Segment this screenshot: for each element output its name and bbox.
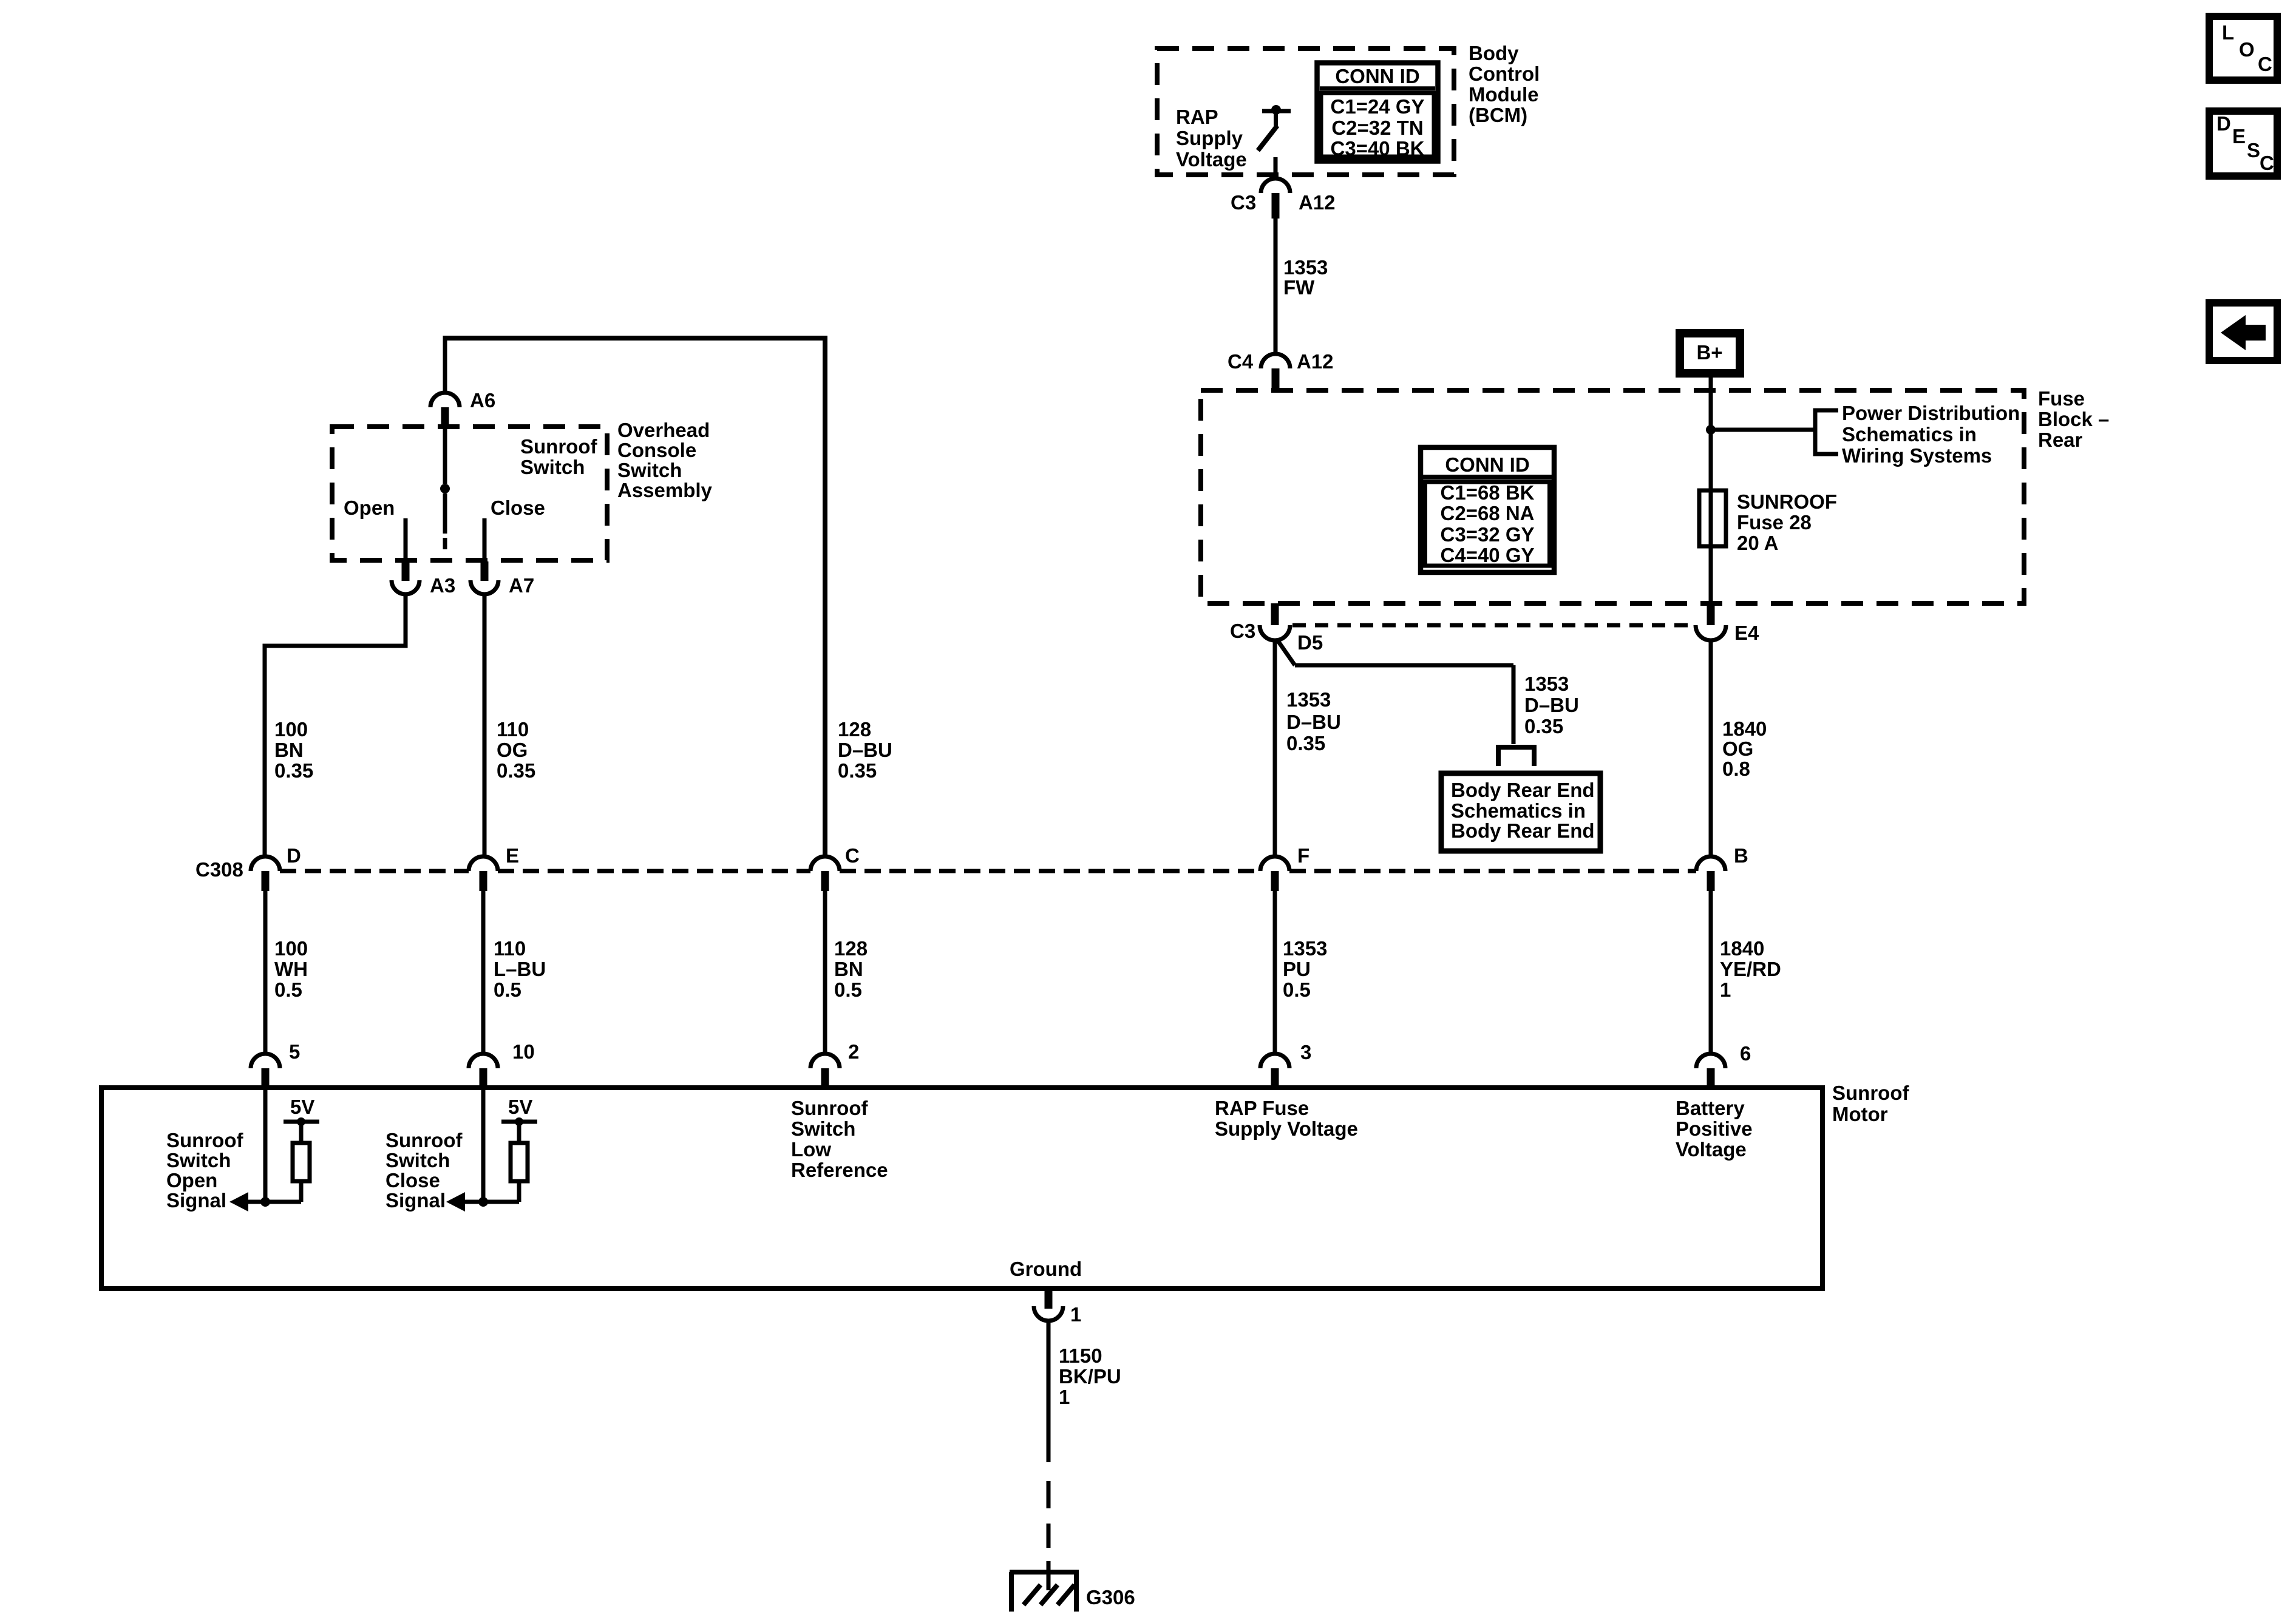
svg-text:Power Distribution: Power Distribution <box>1842 402 2020 424</box>
svg-text:C4=40 GY: C4=40 GY <box>1440 544 1534 566</box>
svg-text:D–BU: D–BU <box>1524 694 1579 716</box>
svg-text:Schematics in: Schematics in <box>1842 423 1977 446</box>
svg-text:G306: G306 <box>1086 1586 1135 1609</box>
svg-text:Supply Voltage: Supply Voltage <box>1215 1117 1358 1140</box>
svg-text:A7: A7 <box>509 574 534 597</box>
svg-text:A6: A6 <box>470 389 495 412</box>
svg-text:0.8: 0.8 <box>1722 758 1750 780</box>
svg-text:D: D <box>2216 112 2231 135</box>
svg-text:5V: 5V <box>508 1096 532 1118</box>
svg-text:1: 1 <box>1059 1386 1070 1408</box>
svg-text:Low: Low <box>791 1138 831 1161</box>
svg-text:0.5: 0.5 <box>1283 978 1311 1001</box>
svg-text:0.5: 0.5 <box>834 978 862 1001</box>
svg-text:5V: 5V <box>290 1096 314 1118</box>
svg-text:D–BU: D–BU <box>838 739 892 761</box>
svg-text:BN: BN <box>274 739 304 761</box>
svg-text:C3=32 GY: C3=32 GY <box>1440 523 1534 546</box>
svg-text:0.35: 0.35 <box>497 759 535 782</box>
svg-text:Positive: Positive <box>1676 1117 1753 1140</box>
svg-text:Sunroof: Sunroof <box>791 1097 868 1119</box>
svg-text:C: C <box>2258 53 2272 75</box>
svg-text:C4: C4 <box>1228 350 1254 373</box>
svg-text:A12: A12 <box>1299 191 1336 214</box>
svg-text:0.35: 0.35 <box>838 759 877 782</box>
svg-text:Switch: Switch <box>166 1149 231 1171</box>
svg-text:Close: Close <box>491 497 545 519</box>
svg-text:Console: Console <box>617 439 696 461</box>
svg-text:Rear: Rear <box>2038 429 2083 451</box>
svg-text:Block –: Block – <box>2038 408 2109 430</box>
svg-text:2: 2 <box>848 1040 859 1063</box>
svg-text:100: 100 <box>274 718 308 741</box>
svg-text:1353: 1353 <box>1283 937 1327 960</box>
svg-text:Signal: Signal <box>385 1189 446 1212</box>
svg-text:Overhead: Overhead <box>617 419 710 441</box>
svg-text:D5: D5 <box>1297 631 1323 654</box>
svg-text:5: 5 <box>289 1040 300 1063</box>
svg-text:PU: PU <box>1283 958 1311 980</box>
svg-text:D–BU: D–BU <box>1286 711 1341 733</box>
svg-text:0.35: 0.35 <box>1524 715 1563 737</box>
svg-text:L: L <box>2222 21 2234 44</box>
svg-text:E4: E4 <box>1734 622 1759 644</box>
svg-text:1840: 1840 <box>1720 937 1764 960</box>
svg-text:Ground: Ground <box>1010 1258 1082 1280</box>
svg-text:0.35: 0.35 <box>1286 732 1325 754</box>
svg-text:O: O <box>2239 38 2255 61</box>
svg-text:0.35: 0.35 <box>274 759 313 782</box>
svg-text:B+: B+ <box>1696 341 1722 364</box>
svg-text:CONN ID: CONN ID <box>1445 453 1529 476</box>
svg-text:C: C <box>2260 152 2274 174</box>
svg-text:C2=32 TN: C2=32 TN <box>1331 117 1423 139</box>
svg-text:BK/PU: BK/PU <box>1059 1365 1121 1388</box>
svg-text:Switch: Switch <box>385 1149 450 1171</box>
svg-text:Sunroof: Sunroof <box>520 435 597 458</box>
svg-text:110: 110 <box>497 718 529 741</box>
svg-text:20 A: 20 A <box>1737 532 1778 554</box>
svg-text:Switch: Switch <box>791 1117 855 1140</box>
svg-text:Fuse 28: Fuse 28 <box>1737 511 1812 534</box>
svg-text:(BCM): (BCM) <box>1469 104 1527 126</box>
svg-text:D: D <box>287 844 301 867</box>
svg-text:WH: WH <box>274 958 308 980</box>
svg-text:FW: FW <box>1283 276 1315 299</box>
svg-text:L–BU: L–BU <box>494 958 546 980</box>
svg-text:0.5: 0.5 <box>494 978 521 1001</box>
svg-text:C1=24 GY: C1=24 GY <box>1330 95 1424 118</box>
svg-text:Control: Control <box>1469 63 1540 85</box>
svg-text:C3=40 BK: C3=40 BK <box>1331 137 1425 160</box>
svg-text:S: S <box>2247 139 2260 161</box>
svg-text:128: 128 <box>834 937 868 960</box>
svg-text:Schematics in: Schematics in <box>1451 799 1586 822</box>
svg-text:1: 1 <box>1070 1303 1081 1326</box>
svg-text:C3: C3 <box>1231 191 1256 214</box>
svg-text:Assembly: Assembly <box>617 479 713 501</box>
svg-text:1353: 1353 <box>1286 688 1331 711</box>
svg-text:A12: A12 <box>1297 350 1334 373</box>
svg-text:100: 100 <box>274 937 308 960</box>
svg-text:Body Rear End: Body Rear End <box>1451 779 1595 801</box>
svg-text:C2=68 NA: C2=68 NA <box>1441 502 1535 524</box>
svg-text:F: F <box>1297 844 1309 867</box>
svg-text:Sunroof: Sunroof <box>1832 1082 1909 1104</box>
svg-text:E: E <box>2232 125 2246 147</box>
svg-text:RAP: RAP <box>1176 106 1218 128</box>
svg-text:0.5: 0.5 <box>274 978 302 1001</box>
svg-text:Switch: Switch <box>520 456 585 478</box>
svg-text:Switch: Switch <box>617 459 682 481</box>
svg-text:1150: 1150 <box>1059 1344 1102 1367</box>
svg-text:1353: 1353 <box>1283 256 1328 279</box>
svg-text:110: 110 <box>494 937 526 960</box>
svg-text:6: 6 <box>1740 1042 1751 1065</box>
svg-text:Sunroof: Sunroof <box>166 1129 243 1151</box>
svg-text:B: B <box>1734 844 1748 867</box>
svg-text:Fuse: Fuse <box>2038 387 2085 410</box>
svg-text:10: 10 <box>512 1040 535 1063</box>
svg-text:SUNROOF: SUNROOF <box>1737 490 1837 513</box>
svg-text:E: E <box>506 844 519 867</box>
svg-text:1353: 1353 <box>1524 673 1569 695</box>
svg-text:A3: A3 <box>430 574 455 597</box>
svg-text:Body: Body <box>1469 42 1519 64</box>
svg-text:1840: 1840 <box>1722 717 1767 740</box>
svg-text:Reference: Reference <box>791 1159 888 1181</box>
svg-text:YE/RD: YE/RD <box>1720 958 1781 980</box>
svg-text:C: C <box>845 844 860 867</box>
svg-text:Signal: Signal <box>166 1189 226 1212</box>
svg-text:C308: C308 <box>195 858 243 881</box>
svg-text:Motor: Motor <box>1832 1103 1888 1125</box>
svg-text:OG: OG <box>497 739 528 761</box>
svg-text:C1=68 BK: C1=68 BK <box>1441 481 1535 504</box>
svg-text:Module: Module <box>1469 83 1538 106</box>
svg-text:Sunroof: Sunroof <box>385 1129 463 1151</box>
svg-text:Body Rear End: Body Rear End <box>1451 819 1595 842</box>
svg-text:128: 128 <box>838 718 871 741</box>
svg-text:1: 1 <box>1720 978 1731 1001</box>
svg-text:Battery: Battery <box>1676 1097 1745 1119</box>
svg-text:Close: Close <box>385 1169 440 1192</box>
svg-text:RAP Fuse: RAP Fuse <box>1215 1097 1309 1119</box>
svg-text:OG: OG <box>1722 737 1753 760</box>
svg-text:Open: Open <box>344 497 395 519</box>
svg-text:Supply: Supply <box>1176 127 1243 149</box>
svg-text:Wiring Systems: Wiring Systems <box>1842 444 1992 467</box>
svg-text:3: 3 <box>1300 1041 1311 1063</box>
svg-text:C3: C3 <box>1230 620 1255 642</box>
svg-text:CONN ID: CONN ID <box>1335 65 1419 87</box>
svg-text:BN: BN <box>834 958 863 980</box>
svg-text:Voltage: Voltage <box>1176 148 1247 171</box>
svg-text:Open: Open <box>166 1169 217 1192</box>
svg-text:Voltage: Voltage <box>1676 1138 1747 1161</box>
